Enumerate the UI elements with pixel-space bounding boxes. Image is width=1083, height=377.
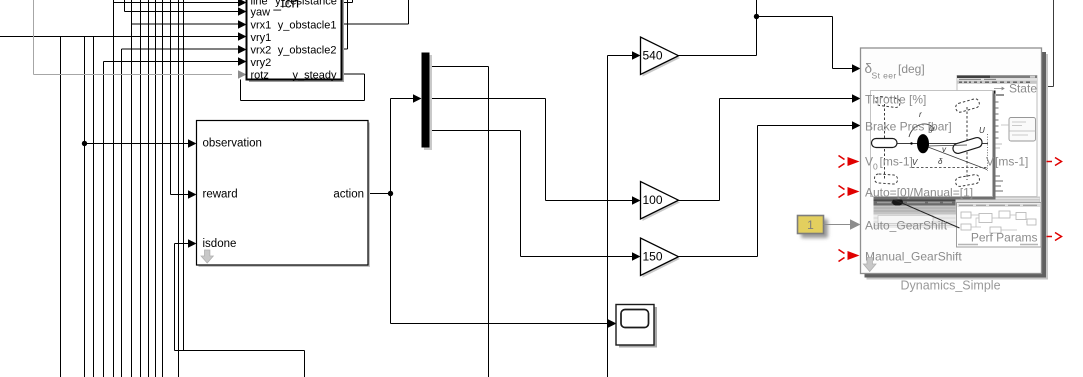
svg-text:State: State <box>1009 82 1037 96</box>
Dynamics_Simple block shadow <box>867 54 1049 280</box>
svg-text:V: V <box>912 158 918 167</box>
agent stale badge grey down arrow <box>201 250 213 263</box>
wire y_steady loop <box>241 74 365 101</box>
car front wheel solid steered <box>952 136 984 154</box>
svg-text:Manual_GearShift: Manual_GearShift <box>865 250 962 264</box>
svg-text:observation: observation <box>203 138 262 150</box>
svg-text:rotz: rotz <box>251 69 269 81</box>
arrowhead vry2 port <box>238 57 247 65</box>
arrowhead brake input <box>852 121 861 129</box>
svg-text:V: V <box>986 155 994 169</box>
arrowhead demux input <box>413 94 422 102</box>
constant 1 block highlighted yellow <box>798 216 824 234</box>
wire bundle vertical 5 <box>148 0 150 377</box>
svg-text:V: V <box>865 155 873 169</box>
wire y_obstacle2 output <box>342 0 348 49</box>
wire reward feeder <box>171 0 190 195</box>
gain 150 shadow <box>643 241 681 278</box>
wire action to demux and scope <box>369 99 611 324</box>
car front axle dashed vertical <box>966 107 968 180</box>
car rear bottom wheel dashed <box>874 174 898 185</box>
wire isdone loop <box>175 244 305 377</box>
arrowhead reward port <box>188 190 197 198</box>
arrowhead rotz grey <box>238 70 247 78</box>
demux shadow <box>424 55 432 150</box>
junction dot action <box>388 191 393 196</box>
svg-text:δ: δ <box>938 157 943 166</box>
red unconnected output marker perf params <box>1047 233 1062 241</box>
wire gain540 feeder from bottom <box>608 56 634 377</box>
car diagram panel shadow <box>874 94 996 200</box>
wire bundle vertical 6 <box>155 0 157 377</box>
svg-text:y_obstacle1: y_obstacle1 <box>278 19 337 31</box>
svg-text:1: 1 <box>807 218 814 232</box>
car diagram panel <box>871 91 993 197</box>
car front bottom wheel dashed <box>955 174 980 187</box>
car rear wheel solid <box>872 139 898 148</box>
wire bundle vertical 1 <box>60 37 62 377</box>
leader line from car panel to thumbnail <box>873 191 960 229</box>
constant 1 shadow <box>801 219 828 238</box>
red unconnected output marker v ms-1 <box>1047 158 1062 166</box>
svg-text:r: r <box>919 110 922 119</box>
arrowhead observation port <box>188 139 197 147</box>
wire bundle vertical 4 <box>140 0 142 377</box>
svg-text:vry2: vry2 <box>251 57 272 69</box>
svg-text:[ms-1]: [ms-1] <box>880 155 913 169</box>
gain 540 <box>641 37 679 75</box>
svg-text:0: 0 <box>873 162 878 172</box>
svg-text:vry1: vry1 <box>251 32 272 44</box>
car rear axle dashed vertical <box>884 104 886 180</box>
arrowhead scope input <box>608 319 617 327</box>
car body axis line <box>876 143 988 145</box>
arrowhead gain150 input <box>632 252 641 260</box>
scope shadow <box>619 307 657 348</box>
wire observation horizontal <box>85 143 190 145</box>
wire constant to auto_gearshift grey <box>824 224 852 226</box>
svg-text:Dynamics_Simple: Dynamics_Simple <box>900 278 1000 292</box>
wire rotz grey <box>34 0 233 75</box>
svg-text:Throttle [%]: Throttle [%] <box>865 93 926 107</box>
wire gain100 to throttle <box>679 99 854 201</box>
svg-text:100: 100 <box>643 193 663 207</box>
gain 150 <box>641 238 679 276</box>
svg-text:150: 150 <box>643 250 663 264</box>
red unconnected input marker auto/manual <box>839 186 845 198</box>
svg-text:540: 540 <box>643 49 663 63</box>
arrowhead auto_gearshift grey <box>850 219 861 229</box>
wire bundle vertical 9 to bottom loop <box>183 0 185 351</box>
svg-text:Auto=[0]/Manual=[1]: Auto=[0]/Manual=[1] <box>865 186 973 200</box>
svg-text:_fcn: _fcn <box>273 0 300 10</box>
red unconnected input marker V0 <box>839 156 845 168</box>
car front top wheel dashed <box>955 98 981 113</box>
wire line-port feeder <box>114 0 240 377</box>
scope block <box>616 305 654 346</box>
wire yaw riser <box>125 0 240 12</box>
perf params thumbnail <box>957 203 1042 248</box>
wire demux out3 to gain150 <box>430 131 634 257</box>
gain 100 <box>641 182 679 220</box>
arrowhead throttle input <box>852 94 861 102</box>
RL Agent block shadow <box>199 123 371 268</box>
svg-text:St eer: St eer <box>872 70 897 80</box>
arrowhead vry1 port <box>238 32 247 40</box>
car rear top wheel dashed <box>876 96 901 108</box>
svg-text:Brake Pres [bar]: Brake Pres [bar] <box>865 120 952 134</box>
arrowhead line port <box>238 0 247 7</box>
svg-text:[deg]: [deg] <box>898 62 925 76</box>
svg-text:action: action <box>333 189 364 201</box>
wire gain150 to brake <box>679 126 854 257</box>
wire demux out1 <box>430 67 489 377</box>
wire bundle vertical 3 <box>93 37 95 377</box>
Dynamics_Simple subsystem block <box>861 48 1042 274</box>
velocity diagonal <box>928 147 987 170</box>
arrowhead vrx2 port <box>238 45 247 53</box>
scope screen icon <box>621 310 649 328</box>
MATLAB function block shadow <box>249 0 344 82</box>
arrowhead dsteer input <box>852 64 861 72</box>
svg-text:isdone: isdone <box>203 238 237 250</box>
yaw arc <box>909 124 934 137</box>
svg-text:Auto_GearShift: Auto_GearShift <box>865 219 948 233</box>
wire bundle vertical 8 <box>178 0 180 377</box>
svg-text:reward: reward <box>203 189 238 201</box>
dynamics stale badge grey down arrow <box>863 258 876 272</box>
svg-text:vrx2: vrx2 <box>251 44 272 56</box>
arrowhead vrx1 port <box>238 20 247 28</box>
wire gain540 to dsteer <box>679 0 854 69</box>
interior screenshot right body <box>993 87 1036 192</box>
gain 100 shadow <box>643 184 681 221</box>
svg-text:[ms-1]: [ms-1] <box>995 155 1028 169</box>
wire bundle vertical 2 (observation source) <box>84 37 86 377</box>
wire vrx1 from bundle <box>132 0 240 377</box>
arrowhead yaw port <box>238 7 247 15</box>
wire state output top right <box>1041 0 1054 87</box>
wire demux out2 to gain100 <box>430 99 634 201</box>
dynamics port labels grey <box>865 61 1038 264</box>
arrowhead gain100 input <box>632 196 641 204</box>
wire vry1 long horizontal into fcn <box>0 36 239 38</box>
wire vry2 from bundle <box>104 62 240 377</box>
svg-text:vrx1: vrx1 <box>251 19 272 31</box>
svg-text:Perf Params: Perf Params <box>971 230 1038 244</box>
RL Agent block <box>197 121 369 266</box>
car cg black ellipse <box>917 134 929 153</box>
MATLAB function block observation_fcn <box>247 0 342 80</box>
wire y_obstacle1 output <box>342 0 409 24</box>
svg-text:yaw: yaw <box>251 6 271 18</box>
svg-text:U: U <box>979 126 985 135</box>
dashed vx axis <box>912 167 987 169</box>
demux block <box>422 53 430 148</box>
svg-text:y_steady: y_steady <box>292 69 337 81</box>
interior screenshot top right toolbar <box>957 76 1037 197</box>
wire vrx2 from bundle <box>122 49 240 377</box>
arrowhead isdone port <box>188 239 197 247</box>
dotted front vertical <box>987 134 989 171</box>
slip diagonal <box>928 145 967 146</box>
wire bundle vertical 7 <box>162 0 164 377</box>
junction dot observation <box>82 141 87 146</box>
arrowhead gain540 input <box>632 51 641 59</box>
wire y_distance output stub <box>342 0 353 3</box>
junction dot gain540 top <box>754 14 759 19</box>
interior bottom screenshot toolbar band <box>874 197 1041 229</box>
svg-text:y_obstacle2: y_obstacle2 <box>278 44 337 56</box>
gain 540 shadow <box>643 40 681 77</box>
red unconnected input marker manual gearshift <box>839 250 845 262</box>
